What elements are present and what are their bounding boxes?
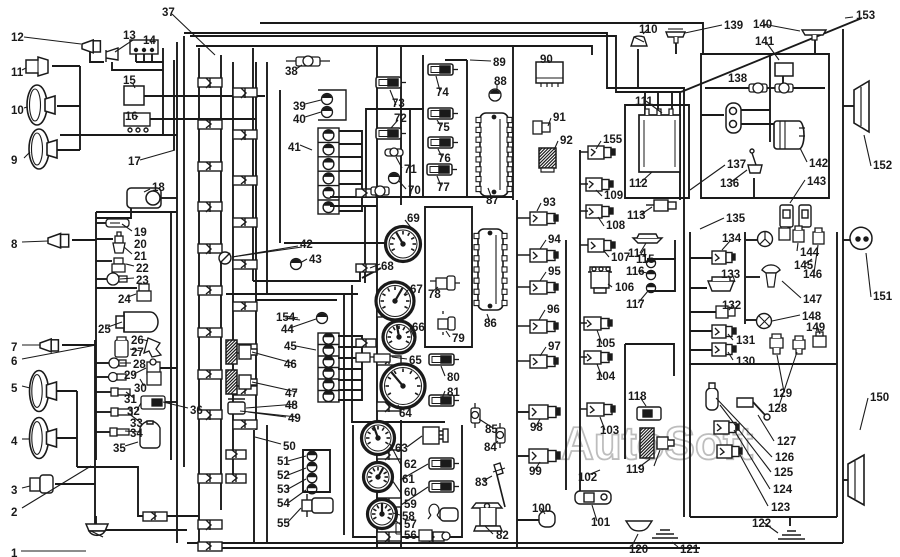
component 101: [575, 491, 611, 504]
svg-text:93: 93: [543, 197, 556, 209]
svg-text:27: 27: [131, 347, 144, 359]
resistor 73: [376, 77, 406, 88]
svg-text:40: 40: [293, 114, 306, 126]
leader 143: [790, 180, 805, 203]
svg-text:79: 79: [452, 333, 465, 345]
connector 14: [130, 40, 158, 54]
svg-text:10: 10: [11, 105, 24, 117]
svg-text:60: 60: [404, 487, 417, 499]
leader 47: [252, 382, 297, 392]
connector center-2: [377, 402, 401, 412]
sensor 91: [533, 121, 550, 134]
horn 8: [48, 234, 69, 248]
leader 40: [305, 112, 321, 117]
leader 119b: [654, 450, 660, 466]
leader 16: [136, 116, 138, 118]
distributor 106: [588, 267, 612, 293]
leader 136: [731, 170, 747, 182]
svg-text:152: 152: [873, 160, 892, 172]
connector ladder1-4: [198, 244, 222, 254]
wire sensor109 stub: [580, 183, 588, 185]
svg-text:119: 119: [626, 464, 645, 476]
svg-text:98: 98: [530, 422, 543, 434]
leader 33: [128, 413, 140, 422]
wire lamp5 stub: [50, 390, 77, 392]
lamp 3: [30, 475, 53, 493]
leader 148: [772, 315, 800, 321]
fuse block 45: [318, 333, 339, 402]
svg-text:36: 36: [190, 405, 203, 417]
leader 34: [125, 431, 140, 432]
leader 121: [672, 542, 678, 547]
sensor 98: [529, 405, 560, 419]
regulator 16: [124, 113, 150, 132]
leader 45: [296, 346, 316, 350]
leader 139: [685, 25, 722, 33]
leader 130: [728, 352, 733, 360]
component 48: [228, 399, 245, 414]
wire top bundle line2: [184, 33, 684, 517]
can 27: [115, 337, 128, 357]
wire y197 b: [423, 196, 513, 198]
wire 151 stub: [843, 239, 851, 241]
connector ladder1-7: [198, 370, 222, 379]
leader 117: [638, 291, 648, 303]
svg-text:17: 17: [128, 156, 141, 168]
leader 69: [405, 220, 413, 230]
lamp 140: [802, 30, 826, 40]
sensor 103: [587, 403, 615, 416]
wire 410 inner: [409, 109, 411, 197]
gauge 64 speedometer: [381, 364, 425, 408]
wire 18 link: [161, 197, 177, 199]
sensor 105: [584, 317, 612, 330]
sensor 146: [813, 228, 824, 244]
svg-text:126: 126: [775, 452, 794, 464]
svg-text:95: 95: [548, 266, 561, 278]
wire 566 vert: [565, 240, 567, 490]
svg-text:59: 59: [404, 499, 417, 511]
wire lamp10 stub: [57, 105, 80, 107]
svg-text:21: 21: [134, 251, 147, 263]
leader 32: [137, 403, 141, 410]
sensor 23: [107, 273, 127, 285]
relay 25: [116, 312, 158, 332]
connector center-0: [377, 308, 401, 317]
wire box fuseline a: [705, 87, 750, 89]
connector ladder2-4: [233, 260, 257, 269]
leader 28: [120, 362, 131, 364]
connector ladder1-9: [198, 474, 222, 483]
sensor 79: [438, 311, 455, 335]
wire low left h: [77, 466, 98, 468]
wire box col b2: [266, 425, 268, 543]
svg-text:99: 99: [529, 466, 542, 478]
svg-text:13: 13: [123, 30, 136, 42]
svg-text:103: 103: [600, 425, 619, 437]
leader 113: [640, 207, 652, 215]
sensor 34: [110, 428, 129, 436]
sensor 24: [137, 284, 151, 301]
leader 61: [400, 464, 428, 480]
leader 94: [540, 240, 546, 249]
leader 125: [720, 405, 771, 472]
sensor 22: [112, 258, 125, 272]
svg-text:87: 87: [486, 195, 499, 207]
connector lad2 b2: [226, 474, 246, 483]
leader 137: [690, 165, 725, 190]
wire stub34: [96, 431, 110, 433]
cylinder 126: [706, 383, 718, 410]
leader 90: [548, 60, 550, 63]
svg-text:29: 29: [124, 370, 137, 382]
horn 151: [850, 227, 872, 249]
svg-text:68: 68: [381, 261, 394, 273]
fuse f2: [775, 83, 793, 93]
leader 4: [22, 438, 30, 440]
leader 56: [396, 523, 401, 534]
leader 17: [140, 150, 175, 160]
svg-text:16: 16: [125, 111, 138, 123]
sensor 97: [530, 355, 558, 368]
wire cluster box B1: [366, 109, 423, 197]
component bc2: [419, 530, 450, 541]
svg-text:138: 138: [728, 73, 748, 85]
sensor 107: [588, 239, 615, 252]
leader 54: [288, 490, 306, 503]
leader 25: [108, 322, 122, 327]
wire stub32r: [165, 401, 177, 403]
leader 71: [396, 157, 402, 168]
svg-text:51: 51: [277, 456, 290, 468]
svg-text:123: 123: [771, 502, 790, 514]
leader 57: [396, 521, 401, 525]
svg-text:61: 61: [402, 474, 415, 486]
wire stub21: [96, 238, 113, 240]
connector 47: [226, 370, 237, 394]
wire 423 up: [422, 55, 424, 109]
lamp 117: [646, 283, 655, 292]
wire lamp110 stub: [637, 49, 639, 88]
wire stub19: [96, 222, 112, 224]
leader 93: [537, 203, 541, 211]
svg-text:56: 56: [404, 530, 417, 542]
svg-text:43: 43: [309, 254, 322, 266]
wire battery feed2: [657, 92, 659, 115]
sensor 131: [712, 325, 736, 338]
horn 12: [82, 40, 100, 53]
component 61: [429, 458, 459, 469]
wire mid vertical b: [516, 200, 518, 548]
wire 68 brace: [362, 268, 381, 278]
wire stub131: [690, 330, 712, 332]
leader 129: [777, 355, 784, 392]
svg-text:124: 124: [773, 484, 793, 496]
svg-text:129: 129: [773, 388, 792, 400]
leader 118: [640, 397, 646, 406]
wire 138 link a: [741, 109, 770, 111]
connector ladder2-0: [233, 88, 257, 98]
flasher 121: [652, 530, 678, 538]
leader 124: [734, 430, 770, 489]
leader 13: [115, 40, 133, 52]
svg-text:91: 91: [553, 112, 566, 124]
svg-text:142: 142: [809, 158, 828, 170]
sensor 104: [584, 351, 612, 364]
wire topleft v1: [162, 48, 164, 135]
wire horn7 stub: [62, 344, 96, 346]
wire sensor chain link: [96, 211, 177, 213]
leader 114: [640, 243, 646, 253]
wire ladder1 left: [198, 48, 200, 548]
resistor 77: [427, 164, 457, 175]
leader 3: [22, 486, 30, 488]
leader 46: [252, 352, 296, 364]
leader 59: [401, 487, 428, 505]
wire sensor97 stub: [517, 360, 530, 362]
leader 12: [24, 37, 81, 44]
leader 123: [740, 455, 768, 506]
svg-text:11: 11: [11, 67, 24, 79]
leader 81: [441, 391, 445, 401]
svg-text:6: 6: [11, 356, 17, 368]
wire sensor93 stub: [517, 217, 530, 219]
leader 104: [597, 364, 602, 377]
svg-text:55: 55: [277, 518, 290, 530]
svg-text:120: 120: [629, 544, 648, 556]
leader 109: [596, 190, 602, 196]
svg-text:94: 94: [548, 234, 561, 246]
leader 107: [604, 251, 609, 257]
svg-text:24: 24: [118, 294, 131, 306]
wire top bundle line1: [260, 23, 703, 54]
svg-text:32: 32: [127, 406, 140, 418]
leader 96: [539, 310, 545, 320]
svg-text:75: 75: [437, 122, 450, 134]
wire lamp9 stub: [50, 149, 80, 151]
svg-text:104: 104: [596, 371, 616, 383]
sensor 93: [530, 212, 558, 225]
svg-text:151: 151: [873, 291, 893, 303]
svg-text:37: 37: [162, 7, 175, 19]
leader 97: [540, 347, 546, 356]
leader 70: [399, 181, 406, 189]
connector center-5: [377, 532, 401, 542]
leader 11: [22, 68, 26, 70]
connector 87: [476, 113, 512, 196]
wire midright frame: [690, 232, 837, 364]
leader 76: [438, 149, 442, 157]
wire 365 vert: [364, 207, 366, 283]
connector 86: [474, 229, 507, 310]
wire stub31: [96, 391, 111, 393]
wire left mid vert: [94, 340, 96, 530]
wire bottom bus 1: [187, 542, 843, 544]
leader 39: [305, 100, 321, 104]
leader 82: [485, 526, 493, 534]
svg-text:1: 1: [11, 548, 18, 557]
connector bc: [422, 532, 444, 542]
sensor 128: [793, 336, 805, 354]
wire cluster box B2: [425, 207, 472, 347]
sensor 144b: [779, 224, 790, 240]
wire left lamp vert: [79, 66, 81, 150]
lamp 139: [666, 29, 685, 43]
svg-text:41: 41: [288, 142, 301, 154]
gauge 66: [383, 321, 415, 353]
svg-text:147: 147: [803, 294, 822, 306]
wire bottomleft L: [98, 467, 199, 516]
wire cluster box B4: [352, 285, 445, 422]
wire center col right low: [400, 420, 402, 548]
svg-text:112: 112: [629, 178, 648, 190]
svg-text:76: 76: [438, 153, 451, 165]
svg-text:80: 80: [447, 372, 460, 384]
svg-text:155: 155: [603, 134, 623, 146]
svg-text:64: 64: [399, 408, 412, 420]
component 80: [429, 354, 459, 365]
svg-text:31: 31: [124, 394, 137, 406]
leader 88: [496, 85, 498, 90]
wire far right vert h: [836, 232, 838, 517]
svg-text:153: 153: [856, 10, 875, 22]
svg-text:14: 14: [143, 35, 156, 47]
svg-text:96: 96: [547, 304, 560, 316]
sensor 113: [646, 200, 676, 211]
headlamp 10: [27, 85, 55, 125]
wire mid band 3: [255, 299, 337, 301]
svg-text:121: 121: [680, 544, 700, 556]
svg-text:89: 89: [493, 57, 506, 69]
battery 111-112: [639, 109, 680, 172]
leader 74: [436, 76, 440, 91]
relay 18: [127, 188, 161, 208]
svg-text:72: 72: [394, 113, 407, 125]
wire 14 pins: [136, 54, 163, 62]
switch 138: [726, 103, 741, 133]
svg-text:110: 110: [639, 24, 658, 36]
leader 60: [392, 480, 401, 493]
leader 44: [290, 319, 316, 328]
leader 120: [632, 534, 638, 546]
wire stub132: [690, 311, 716, 313]
wire midright vert: [744, 232, 746, 324]
dome lamp 114: [633, 234, 662, 243]
svg-text:117: 117: [626, 299, 645, 311]
gauge 57 clock: [368, 500, 397, 529]
sensor 132: [716, 306, 735, 318]
svg-text:12: 12: [11, 32, 24, 44]
wire topright box: [701, 54, 829, 198]
switch 32: [141, 396, 165, 409]
wire sensor107 stub: [580, 244, 588, 246]
leader 127: [758, 415, 774, 441]
svg-text:4: 4: [11, 436, 18, 448]
speaker 152: [854, 81, 869, 132]
leader 52: [288, 468, 306, 475]
headlamp 9: [29, 129, 57, 169]
svg-text:3: 3: [11, 485, 17, 497]
leader 101: [592, 505, 597, 521]
leader 72: [391, 120, 398, 128]
svg-text:54: 54: [277, 498, 290, 510]
wire battery frame: [625, 105, 689, 198]
connector ladder2-2: [233, 176, 257, 185]
wire center col right: [400, 45, 402, 205]
connector ladder2-8: [233, 420, 257, 429]
relay 141: [775, 63, 793, 76]
leader 152: [864, 135, 871, 166]
gauge 63 tachometer: [362, 422, 395, 455]
switch 42: [219, 247, 302, 264]
leader 36: [163, 402, 188, 408]
leader 131: [728, 334, 733, 340]
svg-text:111: 111: [635, 96, 654, 108]
coil 82: [472, 503, 502, 531]
wire diagonal 153: [681, 18, 862, 92]
leader 43: [300, 259, 307, 263]
relay 15: [124, 86, 144, 105]
leader 79: [446, 331, 450, 337]
connector ladder2-3: [233, 218, 257, 227]
wire 122 stub: [789, 517, 791, 526]
svg-text:63: 63: [395, 443, 408, 455]
svg-text:115: 115: [636, 254, 655, 266]
leader 15: [133, 84, 135, 88]
svg-text:69: 69: [407, 213, 420, 225]
svg-text:22: 22: [136, 263, 149, 275]
fuse 38: [286, 56, 330, 66]
sensor 109: [586, 178, 613, 191]
wire cluster box B3: [353, 425, 462, 537]
wire box115: [647, 259, 675, 291]
connector 46: [226, 340, 237, 364]
connector ladder1-2: [198, 162, 222, 171]
wire 12 drop: [90, 51, 104, 62]
leader 22: [126, 264, 134, 266]
leader 49: [248, 412, 286, 417]
leader 84: [492, 441, 498, 446]
connector center-4: [377, 498, 401, 508]
leader 147: [782, 281, 801, 298]
wire stub98: [517, 411, 529, 413]
wire left vertical2: [183, 36, 185, 467]
wire stub146: [746, 239, 758, 241]
wire top bundle line4: [196, 46, 592, 55]
svg-text:2: 2: [11, 507, 17, 519]
svg-text:113: 113: [627, 210, 646, 222]
wire bottom right h: [690, 516, 837, 518]
leader 106: [608, 284, 612, 287]
leader 50: [255, 437, 281, 444]
leader 134: [722, 241, 730, 250]
wire grid41: [339, 131, 362, 211]
svg-text:85: 85: [485, 424, 498, 436]
leader 100: [541, 508, 545, 514]
wire sensor bus right: [579, 150, 581, 500]
svg-text:105: 105: [596, 338, 616, 350]
leader 29: [134, 368, 146, 374]
svg-text:50: 50: [283, 441, 296, 453]
connector centerb-0: [356, 189, 376, 197]
svg-text:154: 154: [276, 312, 296, 324]
wire box col c: [279, 90, 281, 243]
lamp 39: [322, 94, 333, 105]
wire y197 a: [330, 196, 366, 198]
leader 8: [22, 241, 48, 242]
lamp 40: [322, 107, 333, 118]
fuse f1: [749, 83, 767, 93]
